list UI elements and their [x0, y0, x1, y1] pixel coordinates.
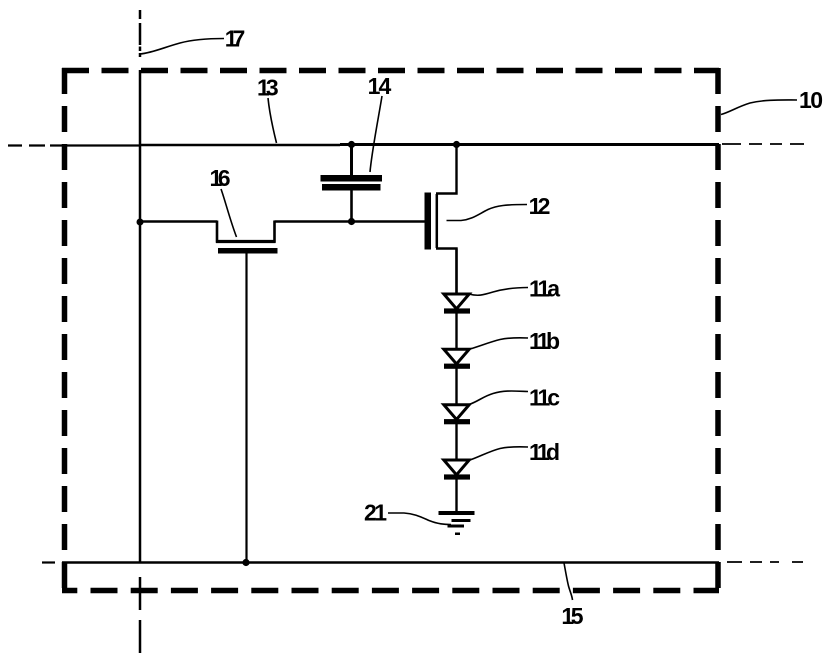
svg-text:11c: 11c	[529, 385, 560, 411]
svg-text:14: 14	[368, 73, 392, 99]
svg-text:11a: 11a	[529, 275, 560, 301]
svg-text:17: 17	[225, 26, 246, 52]
svg-text:12: 12	[529, 193, 551, 219]
svg-text:11b: 11b	[529, 328, 560, 354]
svg-text:16: 16	[210, 165, 231, 191]
svg-text:15: 15	[561, 603, 583, 629]
svg-text:13: 13	[257, 75, 279, 101]
svg-text:11d: 11d	[529, 439, 560, 465]
svg-text:21: 21	[364, 500, 387, 526]
svg-text:10: 10	[799, 87, 823, 113]
